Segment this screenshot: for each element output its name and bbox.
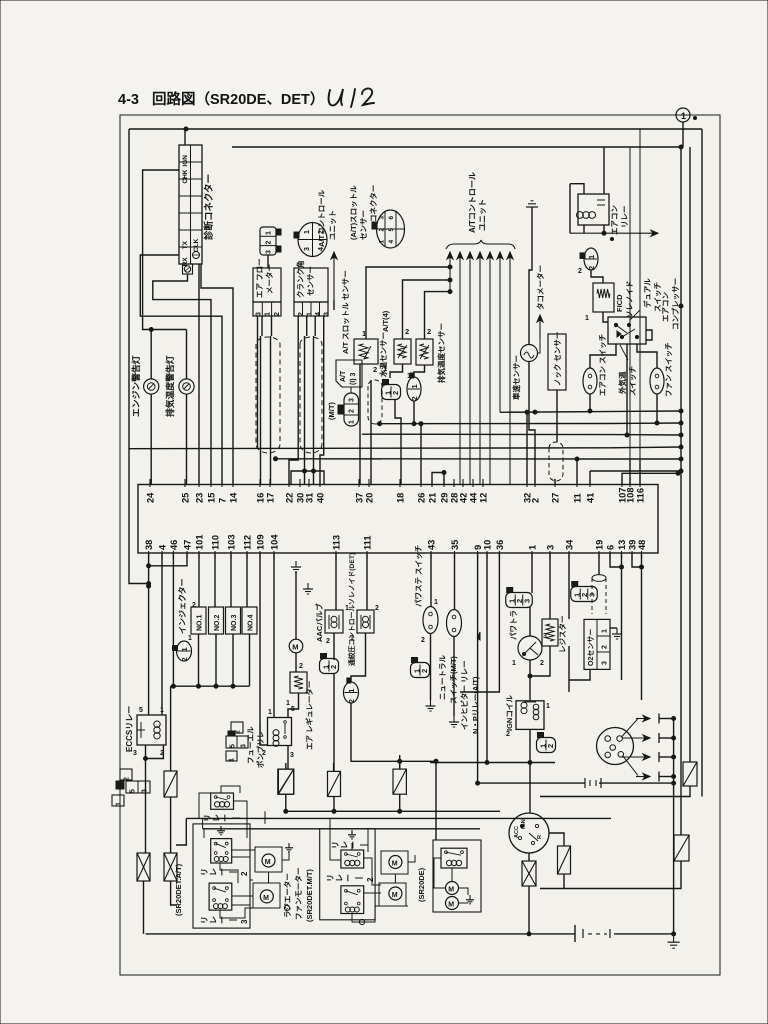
motor C2 [446, 897, 459, 910]
FICD solenoid box [593, 283, 614, 312]
fuse injector common [164, 771, 177, 797]
cluster bus y811 [286, 810, 500, 812]
svg-text:109: 109 [256, 534, 266, 550]
fuse left 1 [137, 853, 150, 881]
svg-text:4: 4 [158, 544, 168, 550]
wire ECCS bottom bracket [145, 745, 147, 759]
wire pin39 48 join [632, 553, 642, 567]
svg-text:リ: リ [203, 814, 212, 822]
wire fuse to bus [143, 881, 145, 934]
svg-text:リ: リ [200, 868, 209, 876]
wire solenoid bus right [400, 760, 436, 762]
wire O2 down [569, 669, 590, 680]
svg-text:2: 2 [347, 699, 356, 703]
wire throttle top [366, 267, 450, 339]
cluster B outline [320, 829, 375, 920]
svg-text:ー: ー [221, 814, 230, 822]
wire pin113 down [335, 553, 337, 610]
relay B2 [341, 886, 364, 914]
svg-text:CHK: CHK [182, 169, 189, 183]
svg-text:2: 2 [274, 312, 281, 316]
wire pin46 down [172, 553, 174, 686]
svg-text:1: 1 [602, 629, 609, 633]
spark plug 3 [622, 754, 650, 760]
staircase wire s1 pin15 [153, 274, 211, 485]
svg-text:41: 41 [586, 493, 596, 503]
ground relay B [348, 830, 356, 839]
svg-text:2: 2 [349, 409, 356, 413]
wire ign switch down [528, 853, 530, 861]
relay A2 [211, 839, 232, 863]
svg-text:2: 2 [366, 877, 375, 882]
wire dual to fan switch [637, 344, 657, 368]
svg-text:10: 10 [483, 540, 493, 550]
fuse top row 2 wire [333, 763, 335, 771]
cluster bus y818 [186, 817, 611, 819]
ground O2 [610, 627, 617, 629]
svg-text:43: 43 [427, 540, 437, 550]
svg-text:リ: リ [331, 841, 340, 849]
wire AAC down to fuse [333, 673, 335, 771]
cluster A outline [193, 824, 250, 928]
svg-text:ー: ー [344, 874, 353, 882]
wire fuse right down [399, 794, 401, 811]
svg-text:2: 2 [421, 637, 425, 644]
svg-text:103: 103 [227, 534, 237, 550]
svg-text:2: 2 [540, 660, 544, 667]
distributor circle [597, 728, 634, 765]
solenoid oval connector [344, 678, 359, 703]
svg-text:CLK: CLK [193, 238, 200, 252]
svg-text:A/Tコントロール: A/Tコントロール [317, 189, 326, 247]
svg-text:25: 25 [181, 493, 191, 503]
svg-text:NO.3: NO.3 [231, 615, 238, 631]
svg-text:1: 1 [681, 111, 686, 121]
svg-text:47: 47 [183, 540, 193, 550]
wire airflow pin3 [257, 316, 259, 449]
wire solenoid bus to cluster C [435, 761, 437, 840]
DET solenoid box [357, 610, 374, 633]
svg-text:ポンプリレー: ポンプリレー [255, 723, 265, 768]
svg-text:2: 2 [124, 777, 131, 781]
cluster A feed wires [264, 811, 266, 824]
svg-text:O2センサー: O2センサー [587, 629, 595, 666]
wire airflow pin1 to ECU16 [261, 316, 263, 336]
svg-text:1: 1 [347, 689, 356, 693]
label relay A2 [200, 868, 249, 876]
svg-text:M: M [263, 895, 269, 902]
ign coil connector 12 [537, 733, 556, 753]
shield dashed O2 [592, 575, 606, 614]
wire ign switch right [549, 833, 564, 846]
knock sensor box [548, 334, 566, 390]
svg-text:2: 2 [506, 731, 510, 738]
relay C [441, 848, 467, 868]
svg-text:44: 44 [469, 492, 479, 503]
fuel pump relay [268, 718, 292, 747]
AC switch oval [583, 368, 597, 394]
wire pin35 down [454, 553, 456, 610]
svg-text:3: 3 [256, 312, 263, 316]
wire pin3 down to resistor [549, 553, 551, 619]
wire solenoid oval down [351, 703, 400, 761]
wire conn to powertr [529, 607, 531, 636]
svg-text:42: 42 [459, 493, 469, 503]
svg-text:20: 20 [365, 493, 375, 503]
wire terminal1 drop [682, 122, 684, 147]
wire speed sensor up to ground [529, 207, 532, 345]
wire pin6 13 join [610, 553, 622, 567]
wire pin21 corner [432, 473, 444, 486]
ECU top pin numbers [146, 479, 646, 503]
svg-text:A/Tコントロール: A/Tコントロール [468, 172, 477, 233]
ECU bottom pin numbers [144, 534, 647, 559]
injector no2 box [209, 607, 224, 634]
brace AT control unit [446, 240, 515, 249]
svg-text:レ: レ [212, 814, 221, 822]
wire pin41 up [589, 471, 591, 485]
motor A1 [255, 847, 282, 872]
svg-text:46: 46 [169, 540, 179, 550]
svg-text:車速センサー: 車速センサー [511, 355, 521, 400]
wire CHK branch to lamps [143, 170, 187, 330]
wire ECCS down to bottom bus [145, 759, 147, 854]
wire pin32 up [526, 412, 528, 485]
wire pin10 down [486, 553, 488, 763]
wire pin36 down [460, 553, 499, 692]
svg-text:2: 2 [531, 498, 541, 503]
svg-text:TX: TX [182, 240, 189, 249]
wire pin25 vertical with lamp2 [186, 394, 188, 485]
bus line b3 [129, 447, 681, 449]
wire pin26 stub [420, 424, 422, 485]
wire right v1 lower [540, 861, 681, 889]
svg-text:1: 1 [350, 635, 354, 642]
fusible link right v2 [683, 762, 697, 786]
fan switch oval [650, 368, 664, 394]
relay A3 [209, 883, 232, 910]
svg-text:5: 5 [388, 228, 395, 232]
wire pin4 down [161, 553, 163, 715]
svg-text:インジェクター: インジェクター [177, 578, 187, 634]
wire crank pin1 to ECU30 [306, 316, 308, 336]
wire right fuse drop [399, 761, 401, 769]
AT I3 label plate [336, 360, 362, 387]
wire pin27 up [554, 479, 556, 485]
svg-text:1: 1 [229, 758, 236, 762]
svg-text:排気温度センサー: 排気温度センサー [436, 323, 446, 383]
bottom bus wire left [146, 933, 576, 935]
wire crank pin2 to ECU22 [289, 316, 298, 485]
svg-text:27: 27 [551, 493, 561, 503]
svg-text:18: 18 [396, 493, 406, 503]
spark plug 2 [622, 735, 650, 741]
svg-text:エアコン: エアコン [661, 292, 670, 322]
svg-text:レジスター: レジスター [557, 616, 567, 654]
throttle sensor box [354, 339, 378, 364]
bus line b4 [276, 458, 682, 460]
svg-text:2: 2 [602, 645, 609, 649]
svg-text:2: 2 [329, 665, 338, 669]
wire dual to AC switch [590, 344, 616, 368]
cluster bus y828 [203, 828, 480, 830]
svg-text:1: 1 [266, 231, 273, 235]
wire fuse fuel to cluster bus [285, 794, 287, 811]
svg-text:エア フロー: エア フロー [255, 258, 264, 298]
wire coil to ign switch [529, 763, 531, 814]
svg-text:3: 3 [379, 216, 386, 220]
svg-text:ノック センサー: ノック センサー [552, 332, 562, 386]
svg-text:レ: レ [209, 916, 218, 924]
svg-text:(M/T): (M/T) [327, 402, 336, 420]
bus line b2 [362, 433, 681, 436]
svg-text:2: 2 [391, 391, 400, 395]
wire pin111 down [366, 553, 368, 610]
svg-text:34: 34 [565, 539, 575, 550]
wire knock down [556, 390, 558, 442]
wire pin9 down [477, 553, 479, 783]
svg-text:ファンモーター: ファンモーター [293, 868, 303, 921]
svg-text:ユニット: ユニット [478, 199, 487, 231]
wire shield bottom to bus [375, 423, 380, 425]
svg-text:3: 3 [304, 247, 311, 251]
svg-text:5: 5 [139, 707, 143, 714]
svg-text:R: R [537, 835, 543, 839]
ground motor A [285, 843, 293, 852]
motor A2 [253, 883, 280, 908]
wire pin104 down [273, 553, 275, 718]
wire pin47 jumper [149, 553, 187, 566]
svg-text:5: 5 [130, 789, 137, 793]
svg-text:1: 1 [587, 255, 596, 259]
fusible link right v1 [674, 835, 689, 861]
svg-text:11: 11 [573, 493, 583, 503]
svg-text:リレー: リレー [620, 206, 629, 229]
svg-text:3: 3 [266, 250, 273, 254]
svg-text:IGN: IGN [182, 155, 189, 167]
svg-text:7: 7 [218, 498, 228, 503]
svg-text:2: 2 [379, 228, 386, 232]
svg-text:エアコン: エアコン [610, 205, 619, 235]
svg-text:(SR20DE): (SR20DE) [417, 867, 426, 902]
fuse right of mid [393, 769, 406, 794]
svg-text:17: 17 [266, 493, 276, 503]
spark plug 4 [636, 774, 650, 780]
svg-text:1: 1 [349, 420, 356, 424]
label relay B2 [326, 874, 375, 882]
O2 sensor connector 123 [571, 582, 598, 602]
injector no3 box [226, 607, 241, 634]
wire pin43 down [430, 553, 432, 607]
svg-text:ACC: ACC [514, 826, 520, 838]
handwritten U12 [329, 88, 374, 107]
svg-text:センサー: センサー [359, 210, 368, 240]
wire AAC to connector [333, 633, 335, 660]
svg-text:3: 3 [523, 599, 532, 603]
svg-text:ー: ー [218, 916, 227, 924]
svg-text:1: 1 [410, 384, 419, 388]
ECCS relay [137, 715, 166, 745]
svg-text:6: 6 [606, 545, 616, 550]
svg-text:コンプレッサー: コンプレッサー [670, 278, 680, 330]
ground top speed sensor [526, 201, 538, 207]
svg-text:リ: リ [326, 874, 335, 882]
svg-text:2: 2 [420, 669, 429, 673]
ignition coil box [516, 701, 544, 730]
svg-text:1: 1 [434, 599, 438, 606]
svg-text:パワステ スイッチ: パワステ スイッチ [413, 545, 423, 607]
wire pin23 to connector [198, 264, 200, 485]
AC relay box [577, 194, 610, 225]
O2 sensor box [584, 619, 610, 669]
wire to FICD [591, 270, 603, 283]
svg-text:101: 101 [195, 534, 205, 550]
svg-text:3: 3 [588, 593, 597, 597]
MT 321 connector [338, 393, 359, 426]
terminal circle A [284, 905, 289, 910]
svg-text:タコメーター: タコメーター [535, 265, 545, 310]
svg-text:39: 39 [628, 540, 638, 550]
wire fuse1 feeds [285, 763, 287, 769]
svg-text:111: 111 [363, 536, 373, 551]
wire AC relay top pins [570, 184, 584, 194]
shield dashed airflow [256, 337, 280, 453]
svg-text:NO.4: NO.4 [248, 615, 255, 631]
injector common down [170, 686, 172, 771]
svg-text:スイッチ: スイッチ [653, 282, 662, 312]
svg-text:4: 4 [315, 312, 322, 316]
staircase wire s2 pin7 [140, 255, 222, 485]
fuse top row 3 wire [399, 755, 401, 769]
svg-text:M: M [265, 859, 271, 866]
svg-text:外気温: 外気温 [617, 371, 627, 394]
svg-text:パワトラ: パワトラ [508, 610, 518, 640]
bus line b1 [380, 422, 681, 425]
svg-text:ファン スイッチ: ファン スイッチ [664, 342, 673, 397]
svg-text:2: 2 [405, 327, 409, 336]
ignition switch circle [509, 813, 549, 853]
svg-text:1: 1 [546, 703, 550, 710]
svg-text:35: 35 [450, 540, 460, 550]
relay B1 [341, 850, 364, 868]
power transistor circle [518, 636, 542, 660]
svg-text:2: 2 [299, 663, 303, 670]
AT arrows group [447, 252, 513, 485]
wire motor to regulator [295, 653, 297, 672]
svg-text:エア レギュレーター: エア レギュレーター [304, 681, 314, 750]
staircase wire s3 pin14 [201, 264, 233, 485]
ground relay A2 [217, 826, 225, 835]
wire right v1 [680, 147, 682, 835]
wire right v2 [689, 147, 691, 762]
wire arrow stub [333, 300, 335, 310]
svg-text:4-3: 4-3 [118, 92, 139, 108]
wire tach tail [538, 338, 541, 353]
svg-text:ー: ー [218, 868, 227, 876]
battery [575, 925, 610, 942]
svg-text:コネクター: コネクター [368, 185, 378, 222]
wire left frame [129, 129, 149, 584]
tachometer arrow [537, 315, 543, 338]
shield dashed knock [549, 442, 563, 481]
wire pin11 up [576, 459, 578, 485]
wire pins107 108 116 [622, 473, 678, 485]
wire plug return down [673, 719, 675, 934]
svg-text:リ: リ [200, 916, 209, 924]
exhaust temp connector 12 [407, 373, 421, 401]
wires ECU to injectors [198, 553, 200, 607]
vehicle speed sensor [521, 345, 538, 362]
neutral switch oval [447, 610, 462, 637]
wire cluster feed left [176, 818, 186, 845]
wire pin20 shielded [370, 380, 372, 485]
svg-text:113: 113 [332, 535, 342, 550]
wire ign line y783 [478, 782, 585, 784]
diagnostic connector [179, 145, 202, 274]
wire crank pin3 to ECU40 [320, 316, 324, 485]
svg-text:37: 37 [355, 493, 365, 503]
fuse left 2 [164, 853, 177, 881]
ground stub2 [303, 583, 313, 594]
AC oval connector 12 [580, 248, 598, 270]
svg-text:3: 3 [133, 750, 137, 757]
svg-text:4: 4 [388, 240, 395, 244]
cluster C wires [451, 868, 453, 882]
svg-text:1: 1 [383, 364, 387, 373]
svg-text:3: 3 [324, 312, 331, 316]
svg-text:2: 2 [375, 605, 379, 612]
wire water conn down pin18 [395, 399, 401, 485]
motor B1 [381, 851, 408, 874]
wire MT pill stub [350, 387, 352, 393]
airflow 3pin connector [260, 227, 281, 255]
svg-text:29: 29 [440, 493, 450, 503]
wire dual bottom mid [626, 344, 628, 435]
svg-text:2: 2 [235, 730, 242, 734]
wire AC relay left drop [569, 184, 571, 234]
svg-text:センサー: センサー [306, 266, 315, 296]
O2 dashed cylinder wire pin19 [598, 553, 600, 575]
svg-text:21: 21 [428, 493, 438, 503]
svg-text:回路図（SR20DE、DET）: 回路図（SR20DE、DET） [152, 90, 324, 108]
wire speed sensor down to pin2 [529, 362, 535, 486]
svg-text:NO.1: NO.1 [197, 615, 204, 631]
wire frame line2 [232, 146, 681, 148]
pointer dual switch [630, 310, 640, 320]
svg-text:6: 6 [388, 216, 395, 220]
svg-text:スイッチ: スイッチ [628, 366, 637, 396]
wire exhaust oval stub [413, 401, 415, 424]
bus line b6 [590, 470, 681, 472]
svg-text:3: 3 [602, 661, 609, 665]
wire fan switch down [656, 394, 658, 423]
svg-text:5: 5 [230, 744, 237, 748]
svg-text:ECCSリレー: ECCSリレー [125, 706, 134, 752]
neutral connector 12 [411, 658, 430, 678]
wire ground to motor [295, 572, 297, 640]
svg-text:M: M [448, 902, 454, 909]
wire exhaust bottom [414, 365, 425, 377]
cluster B extra wires [330, 818, 341, 860]
exhaust temp sensor box [416, 339, 433, 365]
svg-text:1: 1 [512, 660, 516, 667]
svg-text:(SR20DET.A/T): (SR20DET.A/T) [174, 863, 183, 916]
wire neutral ground [453, 637, 455, 717]
air regulator box [290, 672, 307, 693]
wire fuse2 down [171, 881, 176, 905]
svg-text:3: 3 [142, 789, 149, 793]
wire water top [403, 280, 451, 339]
